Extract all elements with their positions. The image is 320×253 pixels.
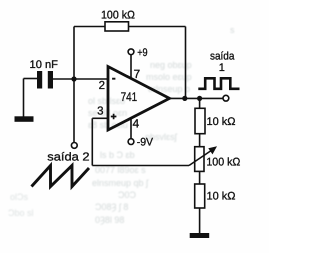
terminal -9V [128,139,134,145]
op-amp U1 741 triangle [108,67,170,131]
resistor R3 10 kΩ (bottom) [195,184,205,208]
node: output junction dot (divider) [197,96,202,101]
svg-text:10 kΩ: 10 kΩ [207,191,236,203]
square wave symbol (saida 1) [198,78,239,89]
wire: pin 3 vertical down [91,118,93,165]
wire: pin 7 supply line [130,55,132,79]
resistor R1 100 kΩ (feedback) [105,22,129,31]
minus sign (inverting input) [112,78,115,80]
wire: feedback down to output node [185,27,187,99]
svg-text:4: 4 [133,116,140,130]
potentiometer P1 wiper arrow [189,150,212,166]
wire: left vertical to ground [23,79,25,117]
wire: node A down to saida 2 terminal [73,79,75,142]
svg-text:100 kΩ: 100 kΩ [101,9,135,21]
wire: top feedback right segment [129,26,186,28]
wire: capacitor to inverting input (pin 2) [53,78,108,80]
svg-text:3: 3 [97,105,103,117]
sawtooth wave symbol (saida 2) [32,166,90,187]
wire: divider chain top segment [199,98,201,108]
plus sign (non-inverting input) [111,114,117,120]
potentiometer P1 100 kΩ body [195,147,204,172]
wire: pin 4 supply line [130,118,132,138]
svg-text:741: 741 [121,90,138,104]
node: output junction dot (feedback) [182,96,187,101]
wire: vertical from cap node up to feedback [73,27,75,80]
wire: wiper wire to potentiometer [92,165,189,167]
wire: pin 3 horizontal [92,117,108,119]
resistor R2 10 kΩ (top) [195,108,205,133]
ground (left) [15,116,34,122]
capacitor C1 10 nF plates [37,71,42,89]
svg-text:saída: saída [210,50,235,62]
node A junction dot (cap / feedback / saida2) [71,76,76,81]
wire: top feedback left segment [74,26,105,28]
svg-text:10 nF: 10 nF [30,59,59,71]
wire: between R2 and potentiometer [199,134,201,147]
wire: output to saida 1 terminal [170,97,223,99]
svg-text:2: 2 [99,80,105,92]
terminal saida 2 [71,143,77,149]
ground (right) [190,233,210,238]
wire: capacitor left lead [24,78,38,80]
svg-text:+9: +9 [137,47,147,59]
svg-text:-9V: -9V [137,136,154,148]
wire: R3 to ground [199,208,201,233]
svg-text:100 kΩ: 100 kΩ [206,156,240,168]
svg-text:10 kΩ: 10 kΩ [207,116,236,128]
wire: between potentiometer and R3 [199,171,201,184]
svg-text:7: 7 [134,67,141,81]
terminal +9 [128,49,134,55]
svg-text:1: 1 [219,62,225,74]
terminal saida 1 [223,95,229,101]
svg-text:saída 2: saída 2 [47,151,89,163]
